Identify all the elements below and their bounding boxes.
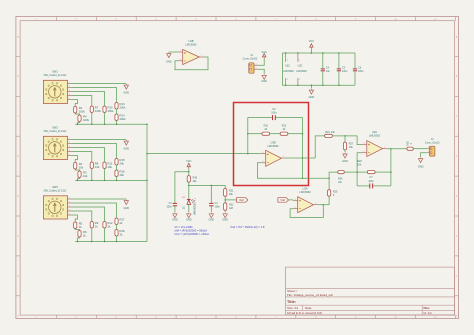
svg-text:4: 4 [69, 205, 70, 207]
svg-text:LM4040DBZ-4.1: LM4040DBZ-4.1 [194, 197, 196, 215]
svg-text:R1: R1 [79, 106, 83, 110]
svg-text:Vref: Vref [239, 198, 244, 202]
svg-text:100k: 100k [79, 109, 86, 113]
wire SW2 pin 2 [72, 148, 105, 163]
label R8 [95, 161, 100, 169]
wire SW3 pin C to GND [72, 198, 127, 200]
rotary switch SW3 [43, 196, 71, 219]
label R3 [83, 170, 88, 178]
svg-text:8: 8 [69, 150, 70, 152]
wire SW3 pin 1 [72, 203, 117, 218]
wire R22 right [288, 133, 303, 135]
wire R21 to tap [224, 196, 226, 203]
op-amp U3B [266, 150, 282, 166]
wire C7 left [357, 185, 369, 187]
wire stage 3 rail [75, 241, 147, 243]
op-amp U2C power pins [286, 53, 288, 85]
svg-text:LMC6062: LMC6062 [283, 70, 294, 73]
label C1 [166, 202, 172, 209]
label C6 [358, 67, 364, 74]
connector J2 [427, 146, 435, 156]
junction [77, 241, 118, 243]
wire [116, 225, 118, 230]
svg-text:200k: 200k [108, 109, 115, 113]
wire power rail left [281, 53, 283, 85]
svg-text:Title:: Title: [287, 300, 296, 304]
resistor R12 [103, 222, 106, 229]
label R26 [338, 177, 343, 184]
label R18 [120, 229, 126, 237]
wire U3A output [387, 148, 407, 150]
svg-text:10k: 10k [79, 165, 84, 169]
svg-text:2: 2 [295, 207, 296, 209]
wire SW2 pin 8 [72, 156, 78, 163]
label U2B value [185, 42, 197, 46]
resistor R1 [74, 107, 77, 114]
svg-text:4: 4 [287, 79, 288, 81]
svg-text:2: 2 [69, 86, 70, 88]
resistor R17 [115, 218, 118, 225]
title block sheet [287, 289, 298, 293]
wire R18 bottom [188, 182, 190, 199]
resistor R22 [280, 132, 288, 135]
label R12 [108, 221, 114, 229]
svg-text:5: 5 [180, 50, 181, 52]
svg-text:U2C: U2C [285, 65, 290, 68]
note Vref formula [230, 225, 265, 229]
op-amp U2A [298, 197, 314, 213]
label C4 [326, 67, 331, 74]
svg-text:2: 2 [428, 151, 429, 153]
label R9 [95, 221, 99, 229]
label D1 value [194, 197, 196, 215]
svg-text:R14: R14 [120, 113, 126, 117]
svg-text:GND: GND [172, 219, 178, 222]
svg-text:R20: R20 [357, 160, 362, 163]
svg-text:GND: GND [166, 60, 172, 63]
label R18 [193, 176, 198, 183]
wire stage 1 rail [75, 123, 147, 125]
wire [116, 121, 118, 125]
title block grid [286, 267, 455, 315]
svg-text:SW3: SW3 [52, 185, 58, 189]
label R5 [79, 221, 83, 229]
wire R26 from node [329, 172, 338, 178]
svg-text:R2: R2 [79, 162, 83, 166]
svg-text:U3B: U3B [270, 141, 275, 145]
pin numbers U2A [295, 199, 317, 209]
wire [104, 169, 106, 181]
label R28 [407, 141, 413, 146]
svg-text:GND: GND [124, 207, 130, 210]
label U3A reference [372, 130, 377, 134]
label SW3 value [44, 188, 67, 192]
title block file [287, 293, 334, 297]
wire U2B + input [169, 51, 179, 53]
label R10 [108, 105, 115, 113]
wire R26 right [344, 171, 357, 173]
svg-text:10k: 10k [83, 174, 88, 178]
svg-text:100n: 100n [358, 70, 364, 73]
wire [91, 169, 93, 181]
note formulas [175, 225, 210, 236]
svg-text:R13: R13 [120, 102, 126, 106]
label R15 [120, 158, 126, 166]
wire SW1 pin 4 [72, 96, 92, 107]
svg-text:R17: R17 [120, 217, 126, 221]
wire R10-R22 [270, 133, 280, 135]
svg-text:R10: R10 [264, 125, 269, 128]
wire node A to R25 node [303, 177, 330, 179]
wire U2A feedback [290, 205, 323, 218]
svg-text:U2A: U2A [302, 187, 307, 191]
svg-text:100n: 100n [342, 70, 348, 73]
svg-text:8: 8 [69, 209, 70, 211]
svg-text:IzL2 = (10-5)/20000 = +50uA: IzL2 = (10-5)/20000 = +50uA [175, 232, 210, 236]
resistor R13 [115, 103, 118, 110]
ground rail [309, 85, 315, 99]
label R19 [325, 131, 335, 134]
pin numbers U3B [263, 152, 285, 163]
svg-text:1k8: 1k8 [229, 207, 234, 210]
svg-text:GND: GND [124, 91, 130, 94]
label R27 [349, 143, 354, 150]
wire Vref to U2A [289, 199, 294, 201]
title block kicad [287, 311, 322, 315]
wire feedback right [302, 118, 304, 179]
wire C1 to GND [174, 206, 176, 212]
svg-text:20k: 20k [120, 173, 125, 177]
label U2B reference [188, 39, 193, 43]
label R13 [120, 102, 127, 110]
svg-text:100k: 100k [95, 109, 102, 113]
wire R23 to GND [224, 210, 226, 212]
label R21 [229, 189, 234, 196]
svg-text:1: 1 [428, 147, 429, 149]
junction Vref node [188, 185, 190, 187]
svg-text:G: G [17, 276, 19, 278]
wire [116, 109, 118, 114]
svg-text:R19: R19 [325, 131, 330, 134]
svg-text:10k: 10k [95, 165, 100, 169]
wire [78, 122, 80, 125]
label J1 reference [250, 53, 253, 57]
svg-text:Conn_01x02: Conn_01x02 [425, 140, 440, 144]
label SW1 value [44, 73, 67, 77]
capacitor C6 [353, 53, 357, 85]
wire SW3 pin 8 [72, 215, 78, 222]
svg-text:20k: 20k [108, 165, 113, 169]
wire summing bus [146, 124, 148, 241]
wire R20 right [375, 171, 391, 173]
svg-text:Rev:: Rev: [424, 306, 431, 310]
junction C1 tap [188, 171, 190, 173]
wire [116, 165, 118, 170]
op-amp U2B [183, 49, 200, 64]
resistor R19 [325, 134, 333, 137]
svg-text:SW_Codes_D-211J: SW_Codes_D-211J [44, 188, 67, 192]
rotary switch SW2 [43, 136, 71, 159]
wire [75, 229, 79, 231]
svg-text:R10: R10 [108, 105, 114, 109]
wire J1 pin2 to GND [258, 69, 265, 74]
wire U3B output [286, 157, 315, 159]
svg-text:GND: GND [186, 219, 192, 222]
svg-text:100k: 100k [83, 118, 90, 122]
title block title [287, 300, 296, 304]
svg-text:R12: R12 [108, 221, 114, 225]
resistor R15 [115, 159, 118, 166]
svg-text:GND: GND [222, 219, 228, 222]
svg-text:4: 4 [69, 146, 70, 148]
label U2A value [299, 190, 311, 194]
ground SW3 [124, 200, 130, 210]
svg-text:VCC: VCC [186, 160, 191, 163]
svg-text:R16: R16 [120, 169, 126, 173]
wire SW2 pin 4 [72, 152, 92, 163]
svg-text:Vref: Vref [280, 198, 285, 202]
power VCC Vref [186, 160, 191, 169]
label C2 [271, 108, 277, 115]
resistor R14 [115, 114, 118, 121]
label R6 [83, 230, 87, 238]
svg-text:1: 1 [384, 147, 385, 149]
resistor R16 [115, 170, 118, 177]
svg-text:200k: 200k [120, 117, 127, 121]
svg-text:20k: 20k [120, 161, 125, 165]
svg-text:Vz = Vcc-21/8s: Vz = Vcc-21/8s [175, 225, 194, 229]
label D1 [182, 197, 186, 209]
svg-text:6: 6 [263, 161, 264, 163]
resistor R9 [90, 222, 93, 229]
svg-text:GND: GND [261, 80, 267, 83]
svg-text:GND: GND [309, 96, 315, 99]
resistor R5 [74, 222, 77, 229]
junction U3A fb [390, 148, 392, 173]
pin numbers U3A [364, 143, 386, 153]
resistor R8 [90, 162, 93, 169]
label U3A value [369, 133, 381, 137]
wire R21 top [224, 185, 226, 188]
svg-text:Id: 1/1: Id: 1/1 [424, 311, 433, 315]
ground C3 [209, 213, 215, 222]
junction Vref tap [224, 199, 226, 201]
wire feedback right U3A [390, 149, 392, 186]
svg-text:KiCad E.D.A. kicad (6.0.8): KiCad E.D.A. kicad (6.0.8) [287, 311, 322, 315]
svg-text:1: 1 [315, 203, 316, 205]
svg-text:3: 3 [295, 199, 296, 201]
wire power rail top [282, 52, 355, 54]
wire C2 right [276, 117, 303, 119]
label R20 [357, 160, 362, 167]
label U3B reference [270, 141, 275, 145]
junction rail [285, 52, 340, 86]
label R23 [229, 204, 234, 211]
label J2 value [425, 140, 440, 144]
wire [75, 169, 79, 171]
wire stage 2 rail [75, 179, 147, 181]
resistor R2 [74, 163, 77, 170]
label U3B value [267, 144, 279, 148]
svg-text:U3A: U3A [372, 130, 377, 134]
svg-text:7: 7 [283, 156, 284, 158]
resistor R7 [90, 106, 93, 113]
op-amp U3A [367, 141, 383, 157]
svg-text:SW1: SW1 [52, 69, 58, 73]
label R16 [120, 169, 126, 177]
highlight box [234, 103, 309, 186]
wire SW2 pin 1 [72, 144, 117, 159]
resistor R18 [115, 230, 118, 237]
wire R19 right [332, 135, 357, 137]
svg-text:GND: GND [209, 219, 215, 222]
svg-text:VCC: VCC [309, 40, 314, 43]
label J1 value [243, 56, 258, 60]
resistor R10 [103, 106, 106, 113]
wire SW1 pin 1 [72, 88, 117, 103]
svg-text:GND: GND [342, 160, 348, 163]
resistor R25 [328, 190, 331, 197]
svg-text:10u: 10u [326, 70, 331, 73]
junction R27 tap [344, 135, 346, 137]
wire VCC to R18 [188, 169, 190, 176]
capacitor C2 [273, 115, 276, 120]
svg-text:1: 1 [69, 82, 70, 84]
svg-text:Vref = 5.0 * 15/(15+10) = 1.8: Vref = 5.0 * 15/(15+10) = 1.8 [230, 225, 265, 229]
title block size [287, 306, 312, 310]
resistor R28 [407, 147, 413, 150]
resistor R20 [367, 171, 375, 174]
svg-text:GND: GND [124, 147, 130, 150]
svg-text:LMC6062: LMC6062 [185, 42, 197, 46]
resistor R27 [343, 142, 346, 150]
resistor R10 [262, 132, 270, 135]
wire [104, 113, 106, 125]
wire SW2 pin C to GND [72, 139, 127, 141]
svg-text:5: 5 [263, 152, 264, 154]
svg-text:R5: R5 [79, 221, 83, 225]
svg-text:LMC6062: LMC6062 [369, 133, 381, 137]
resistor R18 [187, 176, 190, 183]
label C7 [368, 176, 374, 183]
wire Vref node [189, 184, 225, 186]
wire SW1 pin 8 [72, 100, 78, 107]
svg-text:G: G [456, 276, 458, 278]
ground U2B input [166, 53, 172, 64]
svg-text:4: 4 [69, 90, 70, 92]
junction main input [247, 153, 249, 155]
svg-text:SW_Codes_D-211J: SW_Codes_D-211J [44, 73, 67, 77]
wire R10 left [248, 133, 262, 135]
svg-text:LMC6062: LMC6062 [267, 144, 279, 148]
wire [78, 178, 80, 181]
svg-text:2: 2 [364, 151, 365, 153]
resistor R26 [338, 171, 345, 174]
wire output to R25 [328, 196, 330, 205]
label U2C value [283, 70, 294, 73]
resistor R6 [78, 231, 81, 238]
connector J1 [249, 63, 258, 73]
svg-text:Size: A4: Size: A4 [287, 306, 298, 310]
wire R20 left [357, 171, 367, 173]
svg-text:R9: R9 [95, 221, 99, 225]
svg-text:R6: R6 [83, 230, 87, 234]
wire C7 right [373, 185, 391, 187]
svg-text:6: 6 [180, 59, 181, 61]
capacitor C5 [337, 53, 341, 85]
svg-text:Date:: Date: [305, 306, 312, 310]
svg-text:R26: R26 [338, 177, 343, 180]
wire SW3 pin 2 [72, 207, 105, 222]
label SW2 value [44, 129, 67, 133]
label R25 [333, 191, 338, 198]
label R1 [79, 106, 86, 114]
junction [77, 123, 118, 125]
junction U2A out [323, 204, 325, 206]
capacitor C4 [321, 53, 325, 85]
label U2A reference [302, 187, 307, 191]
svg-text:SW2: SW2 [52, 125, 58, 129]
junction R25 node [328, 177, 330, 179]
svg-text:File: Voltage_source_v2.kicad_: File: Voltage_source_v2.kicad_sch [287, 293, 334, 297]
wire output up [315, 136, 324, 158]
resistor R4 [78, 115, 81, 122]
wire U2B feedback [175, 57, 208, 70]
svg-text:R8: R8 [95, 161, 99, 165]
svg-text:2: 2 [69, 142, 70, 144]
wire R28 to J2 [413, 148, 427, 150]
svg-text:8: 8 [69, 94, 70, 96]
capacitor C1 [173, 203, 177, 205]
svg-text:100n: 100n [271, 112, 277, 115]
label R7 [95, 105, 102, 113]
wire C1 branch [175, 172, 189, 203]
wire [104, 228, 106, 242]
label SW2 reference [52, 125, 58, 129]
wire [116, 236, 118, 242]
resistor R21 [224, 189, 227, 197]
wire C2 left [248, 117, 272, 119]
svg-text:8: 8 [299, 60, 300, 62]
svg-text:R18: R18 [120, 229, 126, 233]
title block rev [424, 306, 431, 310]
label R14 [120, 113, 127, 121]
svg-text:R3: R3 [83, 170, 87, 174]
svg-text:2: 2 [256, 68, 257, 70]
svg-text:LMC6062: LMC6062 [299, 190, 311, 194]
ground SW1 [124, 84, 130, 94]
label R22 [282, 125, 287, 132]
ground SW2 [124, 140, 130, 150]
label U3C value [296, 70, 307, 73]
junction C3 tap [211, 185, 213, 187]
wire J1 pin1 to VCC [258, 59, 265, 65]
rotary switch SW1 [43, 80, 71, 103]
wire SW1 pin 2 [72, 92, 105, 107]
wire [91, 113, 93, 125]
pin stubs U3A [362, 145, 387, 153]
ground R27 [342, 150, 348, 163]
label R17 [120, 217, 126, 225]
svg-text:1: 1 [69, 138, 70, 140]
label SW3 reference [52, 185, 58, 189]
wire SW1 pin C to GND [72, 83, 127, 85]
power VCC J1 [262, 51, 267, 59]
pin stubs U2A [293, 201, 318, 209]
label R11 [108, 161, 113, 169]
wire SW3 pin 4 [72, 211, 92, 222]
svg-text:LMC6062: LMC6062 [296, 70, 307, 73]
